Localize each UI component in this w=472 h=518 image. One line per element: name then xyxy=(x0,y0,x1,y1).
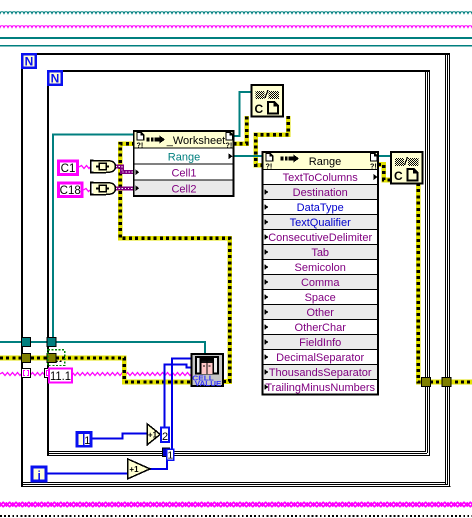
green dashed tunnel marker with dots xyxy=(48,350,65,366)
svg-text:Other: Other xyxy=(306,307,334,319)
svg-text:VALUE: VALUE xyxy=(195,379,222,388)
increment node (outer) xyxy=(128,459,150,479)
tunnel: refnum olive right (inner loop) xyxy=(422,378,431,387)
wire: string zigzag from left into CELL VALUE xyxy=(0,373,192,376)
svg-text:TrailingMinusNumbers: TrailingMinusNumbers xyxy=(265,382,375,394)
svg-text:?!: ?! xyxy=(370,161,377,170)
loop count terminal N (outer) xyxy=(22,54,36,68)
svg-text:Range: Range xyxy=(168,152,200,164)
svg-text:ConsecutiveDelimiter: ConsecutiveDelimiter xyxy=(268,232,372,244)
svg-text:+1: +1 xyxy=(148,430,158,439)
for loop (outer) frame xyxy=(21,53,451,487)
svg-text:2: 2 xyxy=(162,431,168,443)
wire: blue increment out via label 2 up to CELL VALUE xyxy=(165,365,192,428)
svg-text:TextToColumns: TextToColumns xyxy=(283,172,359,184)
wire: blue 1-constant to increment xyxy=(92,434,148,439)
To Variant node 2 xyxy=(91,183,116,195)
wire: automation refnum in (left tunnels to CELL VALUE) xyxy=(0,358,192,382)
wire: black dotted (bottom) xyxy=(0,515,472,517)
close reference node 2 xyxy=(391,152,423,184)
svg-text:N: N xyxy=(25,55,34,69)
tunnel: teal (inner loop) xyxy=(47,338,56,347)
wire: blue i to increment 2 xyxy=(47,473,128,475)
increment node (inner) xyxy=(147,424,160,445)
wire: teal solid horizontal 1 xyxy=(0,37,472,39)
wire label 1 (blue, at tunnel) xyxy=(167,449,174,461)
svg-text:Semicolon: Semicolon xyxy=(295,262,346,274)
tunnel: refnum olive (outer loop) xyxy=(22,354,31,363)
wire: teal Range output to Range invoke node xyxy=(234,155,263,157)
wire: automation refnum close ref 2 out through right tunnels xyxy=(418,183,472,382)
svg-text:i: i xyxy=(38,468,41,482)
svg-text:N: N xyxy=(51,72,60,86)
tunnel: refnum olive (inner loop) xyxy=(47,354,56,363)
svg-text:?!: ?! xyxy=(266,161,273,170)
svg-text:+1: +1 xyxy=(129,465,139,474)
wire: magenta braided string 2D-array (bottom) xyxy=(0,501,472,509)
close reference node 1 xyxy=(252,85,284,117)
wire: variant ToVariant2 to Cell2 xyxy=(116,187,136,191)
tunnel: indexing string (inner loop) xyxy=(45,369,54,378)
wire: teal from left tunnels to CELL VALUE top xyxy=(0,342,205,354)
svg-text:?!: ?! xyxy=(226,140,233,149)
svg-text:Cell1: Cell1 xyxy=(171,168,196,180)
numeric constant 1 xyxy=(77,433,91,448)
svg-text:OtherChar: OtherChar xyxy=(295,322,347,334)
svg-text:DataType: DataType xyxy=(297,202,344,214)
svg-text:Tab: Tab xyxy=(311,247,329,259)
svg-text:Comma: Comma xyxy=(301,277,340,289)
svg-text:C1: C1 xyxy=(61,163,76,175)
svg-text:1: 1 xyxy=(84,435,90,447)
svg-text:C: C xyxy=(255,102,264,116)
svg-text:FieldInfo: FieldInfo xyxy=(299,337,341,349)
iteration terminal i (outer loop) xyxy=(32,467,46,482)
subVI CELL VALUE xyxy=(192,354,224,388)
svg-text:ThousandsSeparator: ThousandsSeparator xyxy=(269,367,372,379)
wire: magenta string-array zigzag (top) xyxy=(0,24,472,30)
wire: teal solid horizontal 2 xyxy=(0,45,472,47)
wire: automation refnum _Worksheet to close reference 1 xyxy=(234,116,247,144)
invoke node _Worksheet xyxy=(134,131,234,196)
svg-text:Cell2: Cell2 xyxy=(171,184,196,196)
svg-text:C18: C18 xyxy=(60,185,81,197)
wire: automation refnum close ref 1 to Range invoke node xyxy=(256,116,288,165)
svg-text:11.1: 11.1 xyxy=(50,371,71,383)
wire label 11.1 (string) xyxy=(49,369,72,383)
wire: teal branch up to _Worksheet node xyxy=(53,135,134,343)
loop count terminal N (inner) xyxy=(48,71,62,85)
wire: string zigzag C1 to ToVariant 1 xyxy=(79,166,90,169)
wire: automation refnum Range node to close reference 2 xyxy=(378,165,391,181)
svg-text:_Worksheet: _Worksheet xyxy=(166,135,226,147)
wire: teal refnum-array zigzag (top) xyxy=(0,10,472,16)
svg-text:Range: Range xyxy=(309,156,341,168)
wire: string zigzag C18 to ToVariant 2 xyxy=(84,189,91,192)
tunnel: teal (outer loop) xyxy=(22,338,31,347)
wire: teal _Worksheet to close reference 1 xyxy=(234,92,252,136)
string constant C1 xyxy=(59,161,78,175)
string constant C18 xyxy=(59,183,83,197)
wire: teal Range node to close reference 2 xyxy=(378,155,391,157)
svg-text:Destination: Destination xyxy=(293,187,348,199)
svg-text:Space: Space xyxy=(305,292,336,304)
To Variant node 1 xyxy=(91,161,116,173)
svg-text:DecimalSeparator: DecimalSeparator xyxy=(276,352,364,364)
svg-text:C: C xyxy=(394,169,403,183)
wire: automation refnum CELL VALUE out to _Worksheet invoke node xyxy=(120,144,229,382)
tunnel: indexing string (outer loop) xyxy=(22,369,31,378)
svg-text:?!: ?! xyxy=(137,140,144,149)
svg-text:1: 1 xyxy=(167,450,173,462)
svg-text:TextQualifier: TextQualifier xyxy=(290,217,351,229)
invoke node Range xyxy=(263,152,379,395)
wire: variant ToVariant1 to Cell1 xyxy=(116,167,136,173)
wire: blue increment 2 out to tunnel label 1 xyxy=(150,461,167,470)
for loop (inner) frame xyxy=(47,70,430,456)
wire label 2 (blue) xyxy=(161,427,169,443)
wire: blue tunnel-1 up to CELL VALUE xyxy=(172,359,192,449)
tunnel: blue (inner loop bottom) xyxy=(163,448,170,457)
tunnel: refnum olive right (outer loop) xyxy=(442,378,451,387)
